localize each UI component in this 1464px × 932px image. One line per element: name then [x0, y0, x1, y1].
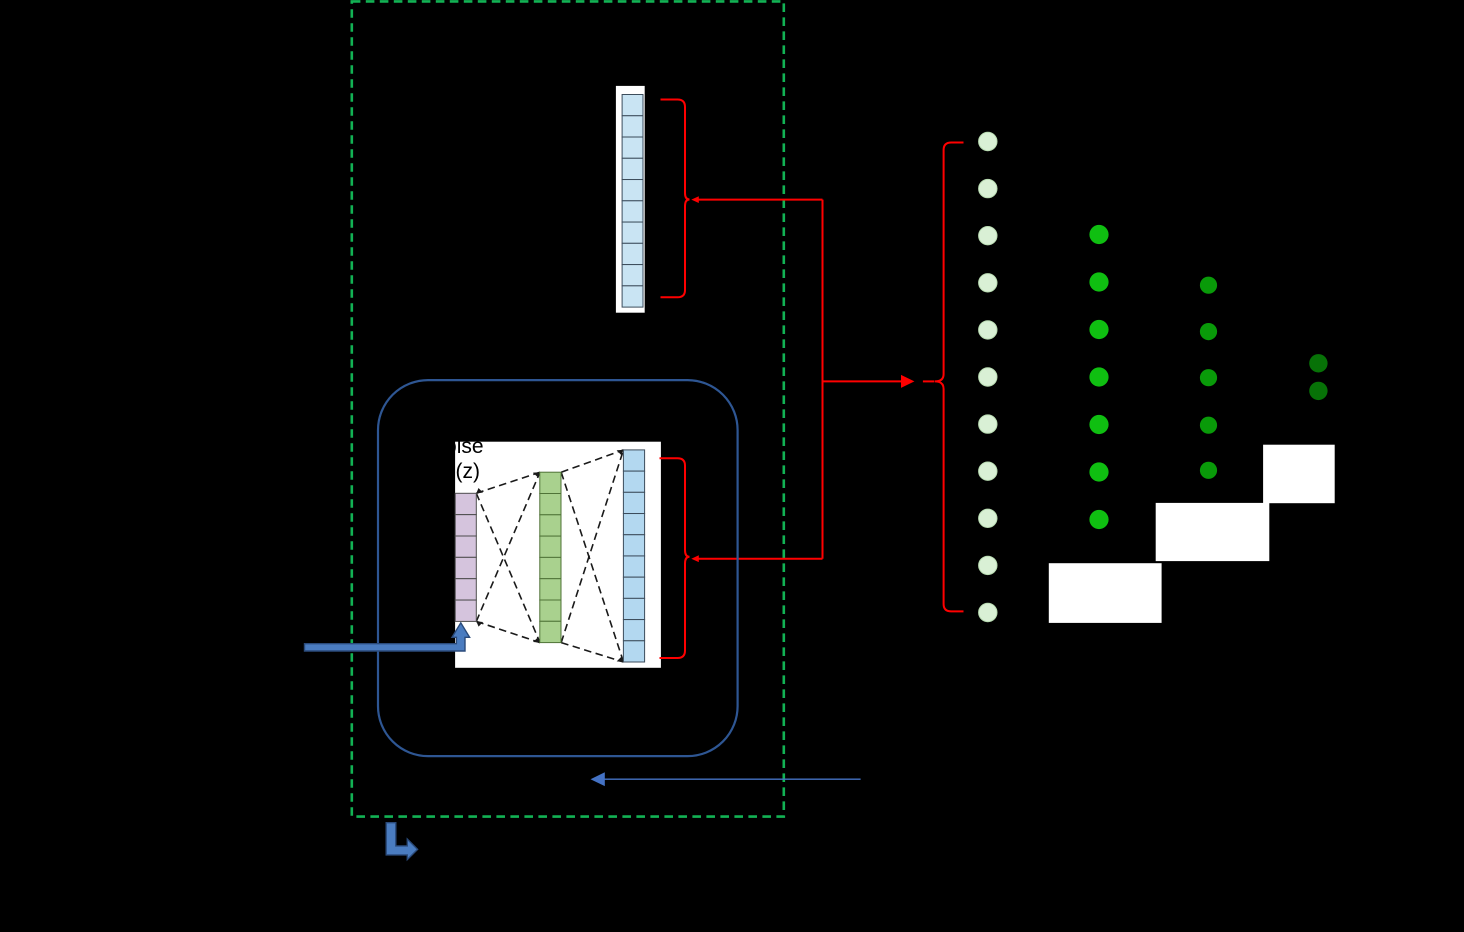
- thin blue feedback arrow: [591, 772, 861, 786]
- tiny arrowheads at connection ends: [476, 450, 623, 662]
- thick blue noise input arrow: [305, 623, 470, 651]
- svg-text:Noise: Noise: [430, 435, 484, 458]
- real data vector white card: [616, 86, 645, 313]
- real data vector cells: [622, 95, 643, 308]
- generator dashed connections hidden to output: [561, 450, 623, 662]
- discriminator input layer (pale dots): [979, 132, 997, 621]
- generator network white card: [455, 442, 661, 668]
- big red brace before discriminator: [935, 143, 964, 612]
- wire: junction to discriminator arrow: [823, 380, 902, 382]
- blue rounded generator box: [378, 380, 738, 756]
- white label card 3: [1263, 445, 1335, 504]
- blue elbow arrow below boundary: [386, 823, 417, 860]
- wire: bottom brace to junction: [699, 558, 823, 560]
- noise input vector (purple cells): [455, 493, 476, 621]
- arrowhead into discriminator: [901, 375, 914, 388]
- red brace right of real data vector: [661, 100, 690, 298]
- small arrowhead at top brace cusp: [691, 196, 699, 203]
- svg-text:p(z): p(z): [444, 460, 480, 483]
- discriminator hidden layer 1 (bright green dots): [1089, 225, 1108, 529]
- generator hidden layer (green cells): [540, 472, 561, 642]
- white label card 2: [1156, 503, 1270, 561]
- label Noise p(z) (black text, partially over white card): [430, 435, 484, 483]
- red connector network: [699, 200, 935, 559]
- discriminator hidden layer 2 (green dots): [1200, 277, 1217, 479]
- red brace right of generated vector: [660, 458, 690, 658]
- generated vector (blue cells): [623, 450, 644, 662]
- green dashed generator-training boundary: [352, 1, 784, 816]
- generator dashed connections input to hidden: [476, 472, 540, 642]
- white label card 1: [1049, 563, 1162, 623]
- wire: vertical junction bus: [822, 200, 824, 559]
- small arrowhead at bottom brace cusp: [691, 555, 699, 562]
- discriminator output layer (dark green dots): [1309, 354, 1327, 400]
- wire: stub before big brace: [923, 380, 935, 382]
- wire: top brace to junction: [699, 199, 823, 201]
